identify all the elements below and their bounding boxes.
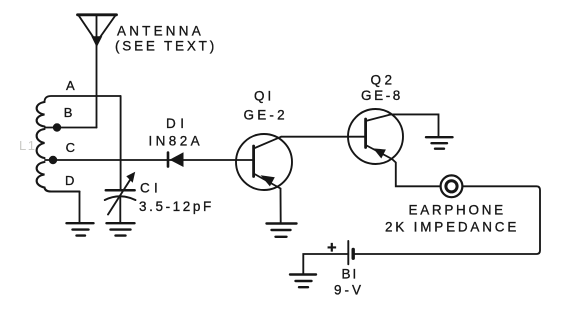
svg-text:GE-2: GE-2: [244, 108, 288, 123]
svg-text:EARPHONE: EARPHONE: [409, 203, 506, 218]
wire tap A top: coil top to vertical line: [45, 96, 121, 102]
svg-text:QI: QI: [254, 89, 274, 104]
transistor Q2: [348, 109, 403, 164]
wire tap C to Q1 base (through diode): [45, 159, 253, 161]
diode D1: [168, 152, 184, 167]
svg-text:C: C: [66, 140, 75, 155]
battery B1: [348, 241, 353, 264]
ground Q2 collector: [426, 137, 453, 149]
wire antenna downlead to tap B: [96, 16, 98, 128]
svg-text:B: B: [64, 105, 73, 120]
ground C1: [107, 223, 135, 235]
wire Q2 collector to ground: [391, 114, 439, 136]
svg-text:DI: DI: [166, 116, 189, 131]
junction dot tap B: [53, 123, 61, 131]
svg-text:(SEE TEXT): (SEE TEXT): [115, 38, 217, 53]
capacitor C1 (variable): [105, 172, 136, 223]
ground battery: [290, 275, 316, 288]
svg-text:2K IMPEDANCE: 2K IMPEDANCE: [385, 220, 519, 235]
wire earphone to battery positive (right loop): [355, 186, 540, 254]
wire L1 bottom to ground: [79, 192, 81, 223]
ground Q1: [267, 224, 297, 237]
svg-text:3.5-12pF: 3.5-12pF: [139, 199, 214, 214]
antenna: [78, 15, 117, 47]
svg-text:A: A: [66, 78, 75, 93]
transistor Q1: [236, 134, 292, 190]
earphone jack J1: [441, 175, 463, 197]
wire vertical from tap A line down to C1: [120, 96, 122, 190]
junction dot tap C: [49, 156, 57, 164]
wire Q1 collector to Q2 base: [281, 136, 365, 138]
inductor L1: [37, 102, 80, 192]
svg-text:L1: L1: [19, 138, 36, 153]
svg-text:Q2: Q2: [371, 72, 396, 87]
wire Q2 emitter to earphone: [392, 159, 440, 186]
wire battery negative to ground: [303, 254, 348, 274]
wire tap B to antenna downlead: [45, 127, 97, 129]
svg-text:CI: CI: [140, 181, 162, 196]
svg-text:BI: BI: [342, 267, 359, 282]
svg-text:GE-8: GE-8: [361, 88, 403, 103]
ground L1: [67, 223, 94, 235]
svg-text:D: D: [65, 173, 74, 188]
svg-text:ANTENNA: ANTENNA: [117, 24, 204, 39]
wire Q1 emitter to ground: [280, 189, 282, 223]
svg-text:IN82A: IN82A: [149, 134, 204, 149]
svg-text:9-V: 9-V: [334, 282, 364, 297]
